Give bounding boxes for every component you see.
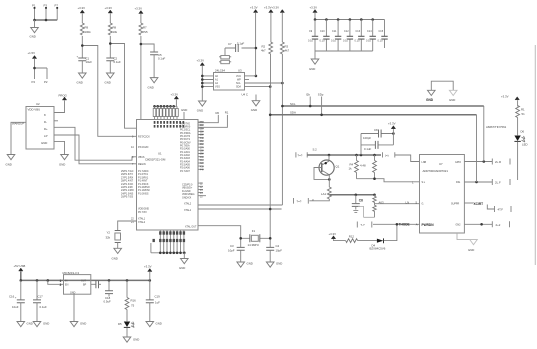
svg-text:+3.3V+3.3V: +3.3V+3.3V	[264, 6, 279, 10]
svg-text:0.1uF: 0.1uF	[158, 57, 166, 61]
ground GND (rail B)	[107, 73, 115, 78]
wire	[109, 61, 111, 73]
svg-text:LA1: LA1	[321, 192, 326, 196]
power +3.3V (SDA pullup)	[269, 10, 273, 13]
svg-text:SDA: SDA	[236, 86, 241, 89]
svg-text:GND: GND	[197, 109, 203, 113]
svg-text:D5: D5	[118, 322, 122, 326]
svg-text:0.1u: 0.1u	[378, 39, 383, 42]
svg-text:GND: GND	[70, 292, 76, 295]
wire: R bottoms to U7 pin1	[357, 179, 420, 182]
resistor R9 100k	[80, 23, 84, 35]
svg-text:I2b: I2b	[306, 92, 310, 96]
svg-text:2+2: 2+2	[496, 223, 501, 227]
svg-text:?=?: ?=?	[297, 200, 302, 204]
svg-text:P3: P3	[44, 4, 48, 8]
wire: U7 DIG out	[464, 181, 492, 183]
wire: C6 to R6 bottom	[358, 206, 375, 217]
svg-text:P2.7/A07: P2.7/A07	[180, 170, 191, 173]
svg-text:GPIO: GPIO	[455, 161, 461, 164]
svg-text:R7: R7	[143, 26, 147, 30]
svg-text:C8: C8	[374, 128, 378, 132]
ground GND (C17)	[33, 322, 41, 327]
svg-text:C15: C15	[379, 30, 384, 33]
svg-text:GND: GND	[251, 108, 257, 112]
svg-text:10pF: 10pF	[276, 249, 283, 253]
capacitor C8	[361, 133, 393, 135]
wire: bottom header bus	[151, 243, 184, 253]
svg-text:GND: GND	[156, 322, 162, 326]
svg-text:32k: 32k	[106, 236, 111, 240]
svg-text:D+: D+	[44, 127, 48, 131]
wire: LNB top line	[307, 154, 381, 156]
wire	[153, 55, 155, 78]
svg-text:XTAL2: XTAL2	[184, 203, 192, 206]
off-page connector (emitter)	[294, 198, 309, 204]
svg-text:VDD VBU: VDD VBU	[28, 108, 41, 112]
svg-text:GND/XX: GND/XX	[182, 196, 192, 199]
page border (right)	[534, 45, 536, 265]
svg-text:R0: R0	[216, 111, 220, 115]
junction dot	[33, 67, 36, 70]
svg-text:D6: D6	[521, 130, 525, 134]
svg-text:GND: GND	[43, 322, 49, 326]
wire: P0.1 net stub	[198, 115, 227, 127]
resistor R4	[356, 155, 358, 179]
MCU right pin number text columns	[200, 122, 205, 172]
MCU right pin stubs group2	[198, 183, 206, 196]
resistor R1 51	[516, 106, 520, 118]
wire: pack bus	[155, 99, 178, 106]
wire: bottom power bus	[21, 271, 150, 280]
MCU left pin number ticks	[121, 135, 134, 224]
svg-text:U7: U7	[439, 162, 443, 166]
svg-text:GND: GND	[30, 35, 36, 39]
svg-text:A6667/TINY561: A6667/TINY561	[486, 125, 507, 129]
wire: emitter to off-page	[309, 199, 329, 201]
svg-text:U1: U1	[158, 152, 162, 156]
svg-text:DIG: DIG	[456, 181, 460, 184]
svg-text:GND: GND	[309, 67, 315, 71]
svg-text:0.1u: 0.1u	[366, 39, 371, 42]
resistor R7 7k5	[139, 23, 143, 35]
wire: EEPROM WP stub	[245, 79, 250, 81]
svg-text:BZX84C5V6: BZX84C5V6	[370, 247, 386, 251]
svg-text:4.48: 4.48	[360, 164, 366, 168]
ground GND (Y2)	[114, 248, 122, 253]
svg-text:+3.3V: +3.3V	[135, 7, 143, 11]
wire: EEPROM VCC	[245, 75, 256, 77]
wire: mid line	[329, 194, 374, 196]
wire: EEPROM SCL to bus	[245, 82, 283, 84]
svg-text:P1.0/NSS: P1.0/NSS	[138, 192, 149, 195]
svg-text:4k7: 4k7	[285, 49, 290, 53]
svg-text:SDp: SDp	[318, 92, 324, 96]
wire: P0.0 net stub	[198, 115, 218, 123]
svg-text:100k: 100k	[85, 30, 92, 34]
svg-text:P7: P7	[55, 4, 59, 8]
svg-text:GND: GND	[148, 86, 154, 90]
svg-text:(=): (=)	[385, 154, 389, 158]
svg-text:+3.3V: +3.3V	[388, 122, 396, 126]
svg-text:10pF: 10pF	[228, 249, 235, 253]
wire: U2 GND pin	[54, 141, 65, 154]
wire: U2 pin8 to PROG	[54, 100, 65, 112]
ground GND (rail A)	[79, 73, 87, 78]
svg-text:MIC5219-3.3: MIC5219-3.3	[63, 271, 80, 275]
capacitor C4	[266, 247, 274, 250]
wire: SDA drop to DIG	[476, 115, 478, 182]
svg-text:R12: R12	[349, 234, 355, 238]
off-page connector (2L.F)	[492, 179, 510, 185]
ground GND (C19)	[146, 322, 154, 327]
ground GND (D5)	[123, 337, 131, 342]
wire: +1.5V to pins	[35, 59, 48, 79]
transistor Q1	[328, 155, 330, 160]
ground GND (C16)	[17, 322, 25, 327]
wire: EEPROM address pins tie	[202, 66, 213, 101]
svg-text:0.1u: 0.1u	[355, 39, 360, 42]
svg-text:51: 51	[522, 112, 526, 116]
svg-text:0.1u: 0.1u	[331, 39, 336, 42]
resistor R8 10k	[108, 23, 112, 35]
wire: connector bus	[35, 19, 58, 21]
svg-text:C13: C13	[356, 30, 361, 33]
svg-text:PWRDN: PWRDN	[422, 223, 435, 227]
svg-text:GND: GND	[112, 257, 118, 261]
svg-text:U3: U3	[238, 69, 242, 73]
svg-text:2L.F: 2L.F	[495, 181, 501, 185]
svg-text:20/P0.7/SS: 20/P0.7/SS	[121, 196, 133, 199]
ground GND (regulator)	[70, 322, 78, 327]
wire: SCL bus	[282, 105, 483, 107]
wire: LED down	[517, 142, 519, 180]
svg-text:GND: GND	[105, 81, 111, 85]
svg-text:10uF: 10uF	[12, 305, 19, 309]
svg-text:ADR7000/ADR7021: ADR7000/ADR7021	[423, 169, 449, 173]
capacitor C3	[237, 247, 245, 250]
svg-text:REGIN: REGIN	[138, 163, 146, 166]
wire: SDA vertical to crystal cap	[269, 87, 271, 248]
wire: diode to THODE net	[384, 224, 397, 240]
svg-text:+3.3V: +3.3V	[310, 6, 318, 10]
svg-text:0.1uF: 0.1uF	[40, 305, 48, 309]
off-page connector (2L.R)	[492, 159, 510, 165]
svg-text:SUPPR: SUPPR	[451, 203, 460, 206]
wire: header bus to ground	[183, 253, 185, 259]
svg-text:?=?: ?=?	[298, 154, 303, 158]
svg-text:LED: LED	[522, 143, 528, 147]
capacitor C18 0.5uF	[108, 280, 110, 290]
wire: SDA bus	[270, 114, 476, 116]
junction dots connector	[33, 19, 36, 22]
svg-text:P0.7/XX: P0.7/XX	[138, 211, 147, 214]
off-page connector (LNB in)	[296, 152, 307, 157]
svg-text:C10: C10	[320, 30, 325, 33]
ground GND (connector)	[31, 28, 39, 33]
svg-text:THODE: THODE	[399, 223, 410, 227]
svg-text:C7: C7	[228, 42, 232, 46]
svg-text:P1: P1	[32, 4, 36, 8]
wire: R junction to U7 pin5	[375, 203, 420, 205]
wire: reg BP cap	[91, 283, 96, 285]
svg-text:GND: GND	[6, 163, 12, 167]
wire: SCL vertical to xtal lineA	[281, 83, 283, 205]
svg-text:0.5uF: 0.5uF	[104, 300, 112, 304]
wire	[517, 100, 519, 106]
inductor LA1	[327, 187, 331, 199]
svg-text:C16: C16	[9, 295, 15, 299]
svg-text:GND: GND	[80, 322, 86, 326]
svg-text:LP: LP	[44, 134, 48, 138]
svg-text:5.1pF: 5.1pF	[237, 42, 245, 46]
svg-text:EN: EN	[65, 283, 69, 286]
wire: rail B down + to MCU VDD	[110, 36, 136, 128]
svg-text:R9: R9	[85, 26, 89, 30]
connector J3 pins P1 P3 P7	[32, 4, 58, 21]
svg-text:IN: IN	[65, 279, 68, 282]
wire: THODE to U7	[373, 223, 420, 225]
svg-text:GND: GND	[59, 163, 65, 167]
off-page connector (THODE)	[357, 222, 372, 228]
ground GND (bridge left)	[428, 90, 436, 95]
resistor R5	[374, 155, 376, 179]
MCU left pin names	[138, 135, 150, 224]
svg-text:C14: C14	[367, 30, 372, 33]
resistor R2 (SDA pullup)	[270, 13, 272, 87]
IC U7	[420, 155, 465, 234]
svg-text:C8051F321-GM: C8051F321-GM	[145, 158, 166, 162]
svg-text:GND: GND	[181, 108, 187, 112]
svg-text:G.: G.	[422, 203, 425, 206]
svg-text:XTAL OUT: XTAL OUT	[185, 226, 197, 229]
svg-text:P2: P2	[44, 80, 48, 84]
ground GND (U2 left)	[7, 155, 15, 160]
IC U1 MCU box	[137, 120, 199, 231]
ground GND (U7, faint)	[470, 240, 478, 245]
svg-text:7k5: 7k5	[143, 30, 148, 34]
svg-text:C3: C3	[230, 244, 234, 248]
svg-text:Y2: Y2	[107, 231, 111, 235]
capacitor C9	[361, 144, 393, 146]
resistor pack RP1 (8 elements)	[153, 105, 178, 120]
svg-text:+3.3V: +3.3V	[197, 59, 205, 63]
svg-text:BP: BP	[83, 283, 87, 286]
capacitor bank C30-C36	[312, 20, 388, 52]
wire	[140, 14, 142, 23]
svg-text:C6: C6	[359, 199, 363, 203]
svg-text:F1: F1	[252, 229, 256, 233]
svg-text:VBUS: VBUS	[138, 156, 145, 159]
svg-text:0.1u: 0.1u	[320, 39, 325, 42]
wire + resistor R12 (horizontal)	[334, 239, 346, 240]
wire: U2 pin7 stub	[54, 120, 58, 122]
off-page connector (2+2)	[492, 221, 509, 227]
svg-text:XCIRT: XCIRT	[474, 202, 484, 206]
wire: U7 GPIO out	[464, 161, 492, 163]
ground GND (C3)	[237, 262, 245, 267]
svg-text:GND: GND	[449, 98, 455, 102]
resistor R3 (SCL pullup)	[281, 13, 283, 83]
wire: analog +3.3V down	[392, 129, 394, 145]
svg-text:?-?: ?-?	[361, 223, 366, 227]
svg-text:2L.R: 2L.R	[495, 160, 501, 164]
svg-text:+3.3V: +3.3V	[329, 232, 337, 236]
svg-text:R1: R1	[225, 110, 229, 114]
jumper block (DNP)	[224, 48, 226, 56]
svg-text:D-: D-	[44, 120, 47, 124]
svg-text:S.2: S.2	[313, 148, 318, 152]
off-page connector (4T.F)	[495, 206, 512, 212]
svg-text:75: 75	[131, 304, 135, 308]
capacitor C7 bypass	[225, 47, 256, 49]
svg-text:+3.3V: +3.3V	[105, 6, 113, 10]
wire: rail A down + to MCU RST	[82, 36, 136, 136]
svg-text:SCL: SCL	[290, 102, 296, 106]
svg-text:R8: R8	[113, 26, 117, 30]
wire	[517, 118, 519, 136]
wire: caps left tie	[360, 134, 362, 156]
IC U2 USB interface box	[26, 107, 54, 150]
svg-text:0.1uF: 0.1uF	[114, 60, 122, 64]
svg-text:U2: U2	[36, 102, 40, 106]
wire: U7 SUPPR / XCIRT	[464, 202, 473, 204]
wire: Q1 base loop	[314, 168, 329, 180]
svg-text:GN2: GN2	[456, 224, 462, 227]
wire	[109, 13, 111, 23]
diode D4 BZX84	[377, 239, 383, 243]
svg-text:OUT: OUT	[81, 279, 87, 282]
ground GND (cap bank)	[311, 59, 319, 64]
svg-text:GND: GND	[276, 262, 282, 266]
svg-text:GND: GND	[179, 266, 185, 270]
capacitor C19 1uF	[149, 280, 151, 300]
IC U5 regulator MIC5219-3.3	[64, 275, 91, 295]
svg-text:24LC64: 24LC64	[215, 69, 225, 73]
wire: rail C to MCU top	[141, 36, 154, 120]
svg-text:SDA: SDA	[290, 111, 296, 115]
wire: wakeup pin to ground	[11, 122, 26, 154]
svg-text:XTAL2: XTAL2	[138, 221, 146, 224]
svg-text:VCC: VCC	[236, 75, 241, 78]
wire: reg gnd	[73, 294, 75, 321]
svg-text:GND: GND	[247, 262, 253, 266]
wire: EEPROM SDA to bus	[245, 86, 271, 88]
capacitor C16 10uF	[20, 280, 22, 300]
wire: Q1 emitter	[328, 175, 330, 187]
ground GND (EEPROM left)	[199, 101, 207, 106]
svg-text:0.1u: 0.1u	[308, 39, 313, 42]
wire: VCC rail	[255, 13, 257, 76]
svg-text:GND: GND	[468, 248, 474, 252]
wire	[81, 61, 83, 73]
svg-text:R16: R16	[131, 299, 137, 303]
svg-text:C19: C19	[155, 295, 161, 299]
svg-text:C11: C11	[332, 30, 337, 33]
MCU bottom pin stubs + header J4	[160, 230, 184, 243]
crystal Y2 32k (MCU left)	[118, 221, 137, 231]
wire: to ground	[34, 20, 36, 28]
wire: U2 D- to MCU	[54, 127, 137, 160]
capacitor C5 0.1uF	[150, 52, 158, 55]
svg-text:LN: LN	[406, 200, 410, 204]
svg-text:A: A	[416, 223, 418, 227]
resistor R16 75	[126, 280, 128, 297]
svg-text:+3.3V: +3.3V	[250, 6, 258, 10]
svg-text:Q1: Q1	[336, 165, 340, 169]
wire: line to U7 LNB pin	[395, 155, 420, 162]
off-page connector (mid line)	[383, 152, 395, 157]
wire: EN tie	[48, 280, 64, 284]
wire: XTAL2 line A	[198, 204, 282, 206]
svg-text:100pF: 100pF	[363, 136, 371, 140]
svg-text:+3.3V: +3.3V	[171, 93, 179, 97]
svg-text:GND: GND	[41, 141, 47, 145]
svg-text:+5V USB: +5V USB	[14, 264, 26, 268]
resistor R6/R7 chain	[374, 195, 376, 218]
MCU top pin names row	[154, 121, 185, 128]
LED D6	[514, 136, 520, 142]
ground GND (bridge right, faint)	[449, 90, 457, 95]
svg-text:+3.3V: +3.3V	[501, 94, 509, 98]
svg-text:+3.3V: +3.3V	[78, 6, 86, 10]
svg-text:GND: GND	[77, 81, 83, 85]
wire: U7 gnd stub	[457, 233, 474, 240]
wire: U7 GN2 out	[464, 223, 492, 225]
svg-text:+1.5V: +1.5V	[28, 51, 36, 55]
svg-text:SCL: SCL	[236, 82, 241, 85]
svg-text:C17: C17	[38, 295, 44, 299]
svg-text:R1: R1	[521, 107, 525, 111]
ground GND (bottom header)	[181, 259, 189, 264]
svg-text:0.1u: 0.1u	[343, 39, 348, 42]
svg-text:C4: C4	[276, 244, 280, 248]
svg-text:C12: C12	[344, 30, 349, 33]
svg-text:XTAL1: XTAL1	[184, 209, 192, 212]
svg-text:LNB: LNB	[422, 161, 427, 164]
svg-text:14.3MHz: 14.3MHz	[248, 243, 260, 247]
MCU right pin stubs group1	[198, 122, 204, 169]
svg-text:3: 3	[60, 283, 62, 287]
svg-text:P3.0/C2D: P3.0/C2D	[138, 146, 149, 149]
svg-text:P4: P4	[32, 80, 36, 84]
wire: XTAL1 line B	[198, 208, 282, 210]
svg-text:U4 C: U4 C	[242, 93, 248, 97]
wire: xtal lower line to C3	[198, 226, 241, 248]
MCU right pin names	[180, 122, 197, 228]
svg-text:1uF: 1uF	[155, 301, 160, 305]
wire: cap bank top bus	[315, 13, 385, 20]
wire: SCL drop to GPIO	[483, 106, 485, 162]
wire	[81, 13, 83, 23]
svg-text:10k: 10k	[113, 30, 118, 34]
svg-text:+3.3V: +3.3V	[144, 265, 152, 269]
svg-text:RST/C2CK: RST/C2CK	[138, 135, 150, 138]
svg-text:GND: GND	[133, 338, 139, 342]
IC U3 EEPROM 24LC64	[214, 73, 245, 91]
wire: floating gnd bridge	[431, 81, 453, 90]
svg-text:PROG: PROG	[59, 94, 67, 98]
capacitor C17 0.1uF	[36, 280, 38, 300]
ground GND (U2 right)	[61, 155, 69, 160]
svg-text:0.1uF: 0.1uF	[364, 147, 372, 151]
svg-text:VSS: VSS	[215, 86, 220, 89]
wire: U2 D+ to MCU	[54, 135, 137, 164]
wire: cap bank bottom bus	[315, 51, 373, 59]
svg-text:GND: GND	[27, 322, 33, 326]
svg-text:10uF: 10uF	[86, 60, 93, 64]
svg-text:4k7: 4k7	[261, 49, 266, 53]
